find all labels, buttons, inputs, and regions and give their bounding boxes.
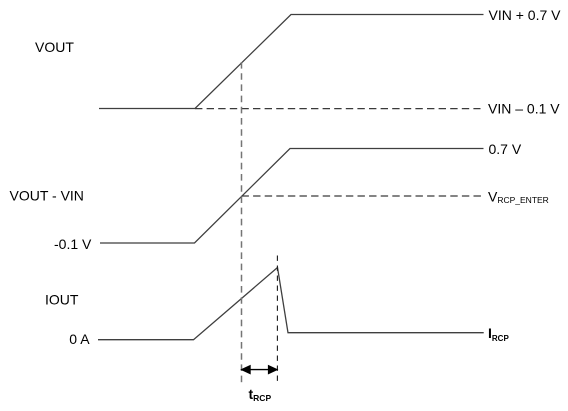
waveform VOUT [99, 15, 484, 109]
dashed level line VIN-0.1V [195, 108, 481, 110]
svg-text:VOUT: VOUT [35, 39, 74, 55]
svg-text:IRCP: IRCP [488, 325, 509, 343]
svg-text:0.7 V: 0.7 V [489, 141, 522, 157]
dimension arrow tRCP [241, 366, 277, 374]
svg-text:VIN – 0.1 V: VIN – 0.1 V [488, 101, 560, 117]
svg-text:VIN + 0.7 V: VIN + 0.7 V [489, 7, 562, 23]
svg-text:IOUT: IOUT [45, 292, 79, 308]
svg-text:0 A: 0 A [69, 331, 90, 347]
waveform VOUT-VIN [100, 149, 484, 244]
vertical dashed marker t0 (gray) [241, 62, 243, 387]
waveform IOUT [98, 268, 484, 340]
svg-text:-0.1 V: -0.1 V [54, 236, 92, 252]
svg-text:VOUT - VIN: VOUT - VIN [10, 188, 84, 204]
vertical dashed marker t1 (black) [276, 256, 278, 383]
svg-text:VRCP_ENTER: VRCP_ENTER [488, 188, 549, 205]
svg-text:tRCP: tRCP [249, 386, 272, 403]
dashed level line VRCP_ENTER [242, 195, 485, 197]
